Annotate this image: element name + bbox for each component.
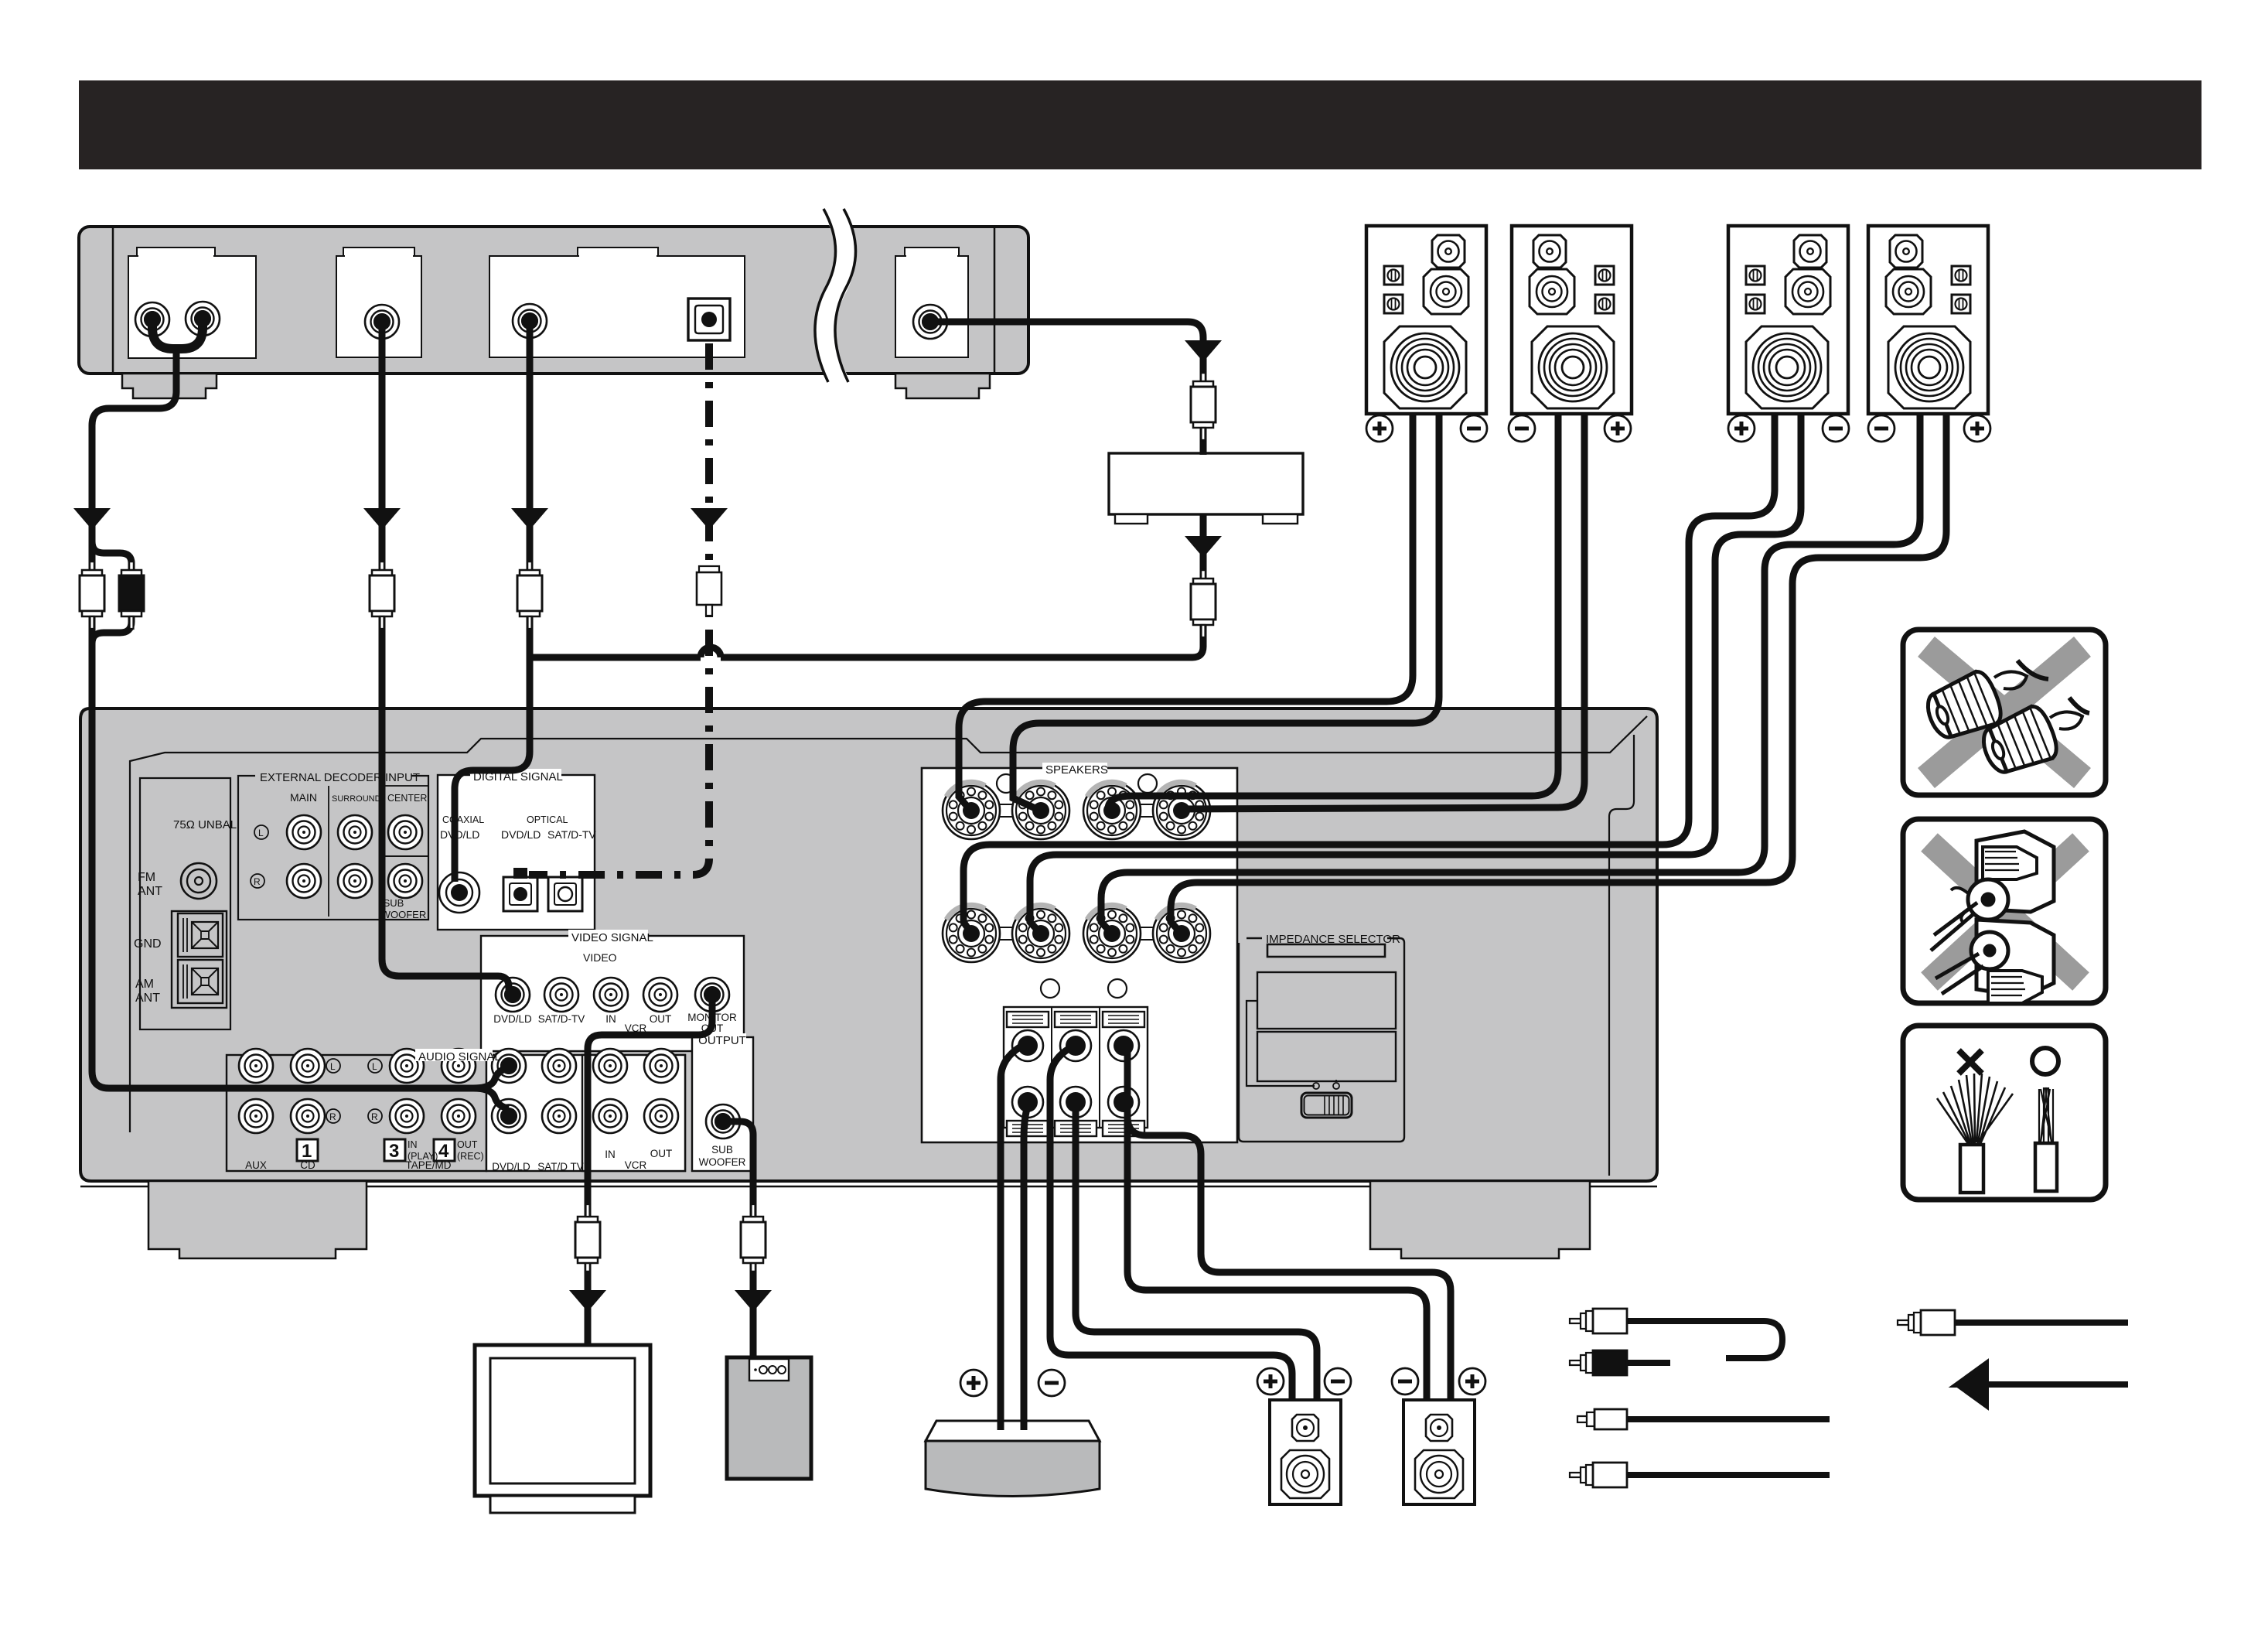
svg-text:CD: CD [300, 1159, 315, 1171]
svg-text:L: L [330, 1061, 336, 1072]
svg-text:COAXIAL: COAXIAL [442, 814, 484, 825]
svg-text:WOOFER: WOOFER [381, 909, 427, 920]
svg-text:DVD/LD: DVD/LD [440, 828, 479, 841]
svg-text:SAT/D-TV: SAT/D-TV [538, 1013, 585, 1025]
svg-text:EXTERNAL DECODER INPUT: EXTERNAL DECODER INPUT [260, 771, 420, 784]
svg-text:R: R [371, 1111, 378, 1122]
svg-text:ANT: ANT [138, 885, 162, 898]
svg-text:SAT/D-TV: SAT/D-TV [547, 828, 596, 841]
svg-text:FM: FM [138, 871, 155, 884]
svg-text:AUDIO SIGNAL: AUDIO SIGNAL [418, 1050, 501, 1063]
svg-text:AUX: AUX [245, 1159, 267, 1171]
svg-text:(REC): (REC) [457, 1151, 484, 1162]
svg-text:OUT: OUT [650, 1013, 672, 1025]
svg-text:3: 3 [389, 1141, 399, 1162]
svg-text:SAT/D TV: SAT/D TV [537, 1161, 584, 1173]
svg-text:VIDEO: VIDEO [583, 951, 617, 964]
svg-text:DVD/LD: DVD/LD [493, 1013, 532, 1025]
svg-text:DVD/LD: DVD/LD [492, 1161, 530, 1173]
svg-text:SURROUND: SURROUND [332, 794, 381, 804]
svg-text:OUT: OUT [650, 1148, 673, 1159]
svg-text:ANT: ANT [135, 992, 160, 1005]
svg-text:R: R [254, 876, 261, 887]
svg-text:IN: IN [605, 1013, 616, 1025]
svg-text:L: L [258, 828, 264, 838]
svg-text:L: L [372, 1061, 377, 1072]
svg-text:MAIN: MAIN [290, 791, 317, 804]
svg-text:AM: AM [135, 978, 154, 991]
svg-text:VIDEO SIGNAL: VIDEO SIGNAL [571, 931, 653, 944]
svg-text:OPTICAL: OPTICAL [527, 814, 568, 825]
svg-text:SUB: SUB [384, 897, 404, 909]
svg-text:IN: IN [605, 1149, 616, 1160]
svg-text:DVD/LD: DVD/LD [501, 828, 541, 841]
svg-text:CENTER: CENTER [387, 793, 427, 804]
svg-text:1: 1 [302, 1141, 312, 1162]
svg-text:TAPE/MD: TAPE/MD [405, 1159, 451, 1171]
svg-text:VCR: VCR [625, 1159, 647, 1171]
svg-text:4: 4 [438, 1141, 449, 1162]
svg-text:R: R [329, 1111, 336, 1122]
svg-text:GND: GND [134, 937, 162, 951]
svg-text:OUT: OUT [457, 1139, 478, 1150]
svg-text:IN: IN [408, 1139, 418, 1150]
svg-text:SPEAKERS: SPEAKERS [1045, 763, 1108, 777]
svg-text:75Ω UNBAL.: 75Ω UNBAL. [173, 818, 240, 831]
svg-text:WOOFER: WOOFER [699, 1156, 746, 1168]
svg-text:SUB: SUB [711, 1144, 733, 1156]
